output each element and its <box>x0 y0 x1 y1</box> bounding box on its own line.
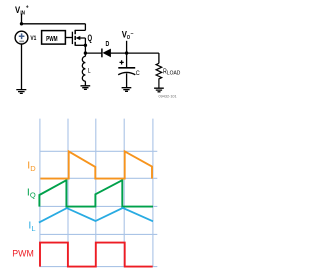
svg-text:ID: ID <box>27 160 36 173</box>
svg-text:PWM: PWM <box>46 34 58 43</box>
svg-text:+: + <box>26 4 29 10</box>
svg-text:L: L <box>88 68 91 75</box>
svg-text:IN: IN <box>20 10 25 16</box>
svg-text:V1: V1 <box>30 35 36 42</box>
svg-text:C: C <box>136 70 140 77</box>
svg-text:Q: Q <box>88 33 93 43</box>
svg-text:09432-101: 09432-101 <box>159 94 177 98</box>
svg-text:LOAD: LOAD <box>167 70 181 76</box>
svg-text:IQ: IQ <box>27 186 36 199</box>
svg-text:IL: IL <box>28 219 35 232</box>
svg-text:D: D <box>106 39 110 48</box>
svg-text:−: − <box>130 31 133 37</box>
svg-text:PWM: PWM <box>12 249 34 259</box>
